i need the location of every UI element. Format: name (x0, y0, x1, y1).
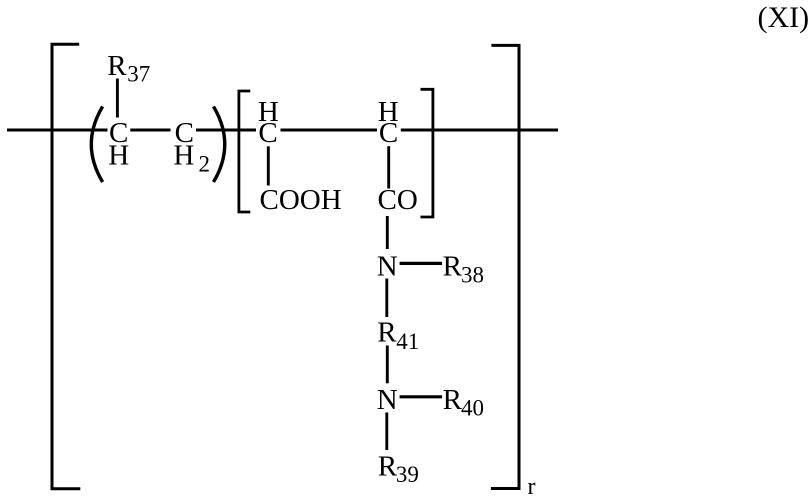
bond R41 to N2 (386, 346, 389, 384)
wire bond C1 to C2 (130, 129, 170, 132)
svg-text:C: C (379, 117, 398, 149)
bond C3 to COOH (267, 146, 270, 185)
svg-text:COOH: COOH (260, 184, 342, 216)
svg-text:CO: CO (378, 184, 418, 216)
wire bond C3 to C4 (281, 129, 378, 132)
bond C4 to CO (387, 146, 390, 188)
svg-text:H: H (108, 140, 129, 172)
bond N2 to R40 (400, 395, 443, 398)
right parenthesis of first repeat unit (214, 107, 225, 183)
svg-text:C: C (258, 117, 277, 149)
wire bond C4 through bracket to right edge (401, 129, 558, 132)
inner left square bracket (239, 91, 250, 212)
svg-text:R: R (377, 317, 397, 349)
svg-text:r: r (528, 474, 536, 498)
svg-text:(XI): (XI) (758, 1, 810, 34)
svg-text:2: 2 (199, 152, 211, 177)
bond N1 to R38 (400, 262, 443, 265)
bond N1 to R41 (385, 279, 388, 318)
svg-text:H: H (173, 140, 194, 172)
bond CO to N1 (386, 216, 389, 249)
bond N2 to R39 (385, 413, 388, 451)
wire bond C2 through paren and bracket to C3 (196, 129, 256, 132)
svg-text:N: N (377, 384, 398, 416)
bond R37 to C1 (116, 79, 119, 118)
outer left bracket (52, 44, 80, 488)
svg-text:40: 40 (461, 395, 484, 420)
left parenthesis of first repeat unit (91, 107, 102, 183)
svg-text:R: R (443, 251, 463, 283)
svg-text:41: 41 (396, 329, 419, 354)
inner right square bracket (421, 89, 433, 217)
wire backbone segment left edge to C1 (7, 129, 108, 132)
outer right bracket (491, 45, 519, 488)
svg-text:R: R (107, 50, 127, 82)
svg-text:R: R (378, 451, 398, 483)
svg-text:R: R (443, 384, 463, 416)
svg-text:37: 37 (127, 62, 150, 87)
svg-text:38: 38 (461, 263, 484, 288)
svg-text:N: N (377, 251, 398, 283)
svg-text:39: 39 (396, 462, 419, 487)
